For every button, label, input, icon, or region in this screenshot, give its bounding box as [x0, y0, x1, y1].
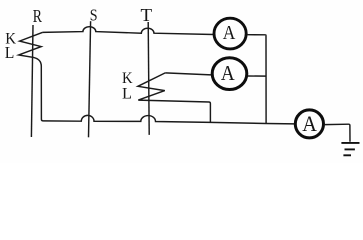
- svg-text:A: A: [223, 23, 236, 44]
- svg-text:L: L: [5, 43, 15, 62]
- svg-text:T: T: [141, 5, 153, 25]
- ammeter A2: [212, 58, 247, 90]
- ground (earth) symbol: [341, 143, 359, 155]
- current transformer CT2 winding (terminals K, L) on phase T: [138, 73, 165, 100]
- wire: right bus joining A1 and A2 outputs down to bottom return bus: [265, 35, 267, 124]
- wire: phase R vertical conductor: [31, 25, 33, 137]
- svg-text:A: A: [302, 111, 317, 136]
- wire: phase T vertical conductor: [148, 22, 149, 135]
- wire: CT2 terminal L stepping down to bottom return bus: [138, 100, 210, 123]
- svg-text:R: R: [33, 6, 42, 26]
- wire: phase S vertical conductor: [89, 21, 91, 137]
- ammeter A1: [214, 18, 246, 49]
- wire: ammeter A1 output to right bus: [247, 34, 266, 36]
- wire: top lead from CT1 terminal K to ammeter A1, hopping over S and T: [42, 27, 213, 35]
- wire: ammeter A3 output to earth connection: [325, 124, 350, 142]
- wire: bottom return bus, hopping over S and T, to ammeter A3: [43, 115, 294, 124]
- svg-text:A: A: [221, 61, 235, 85]
- svg-text:L: L: [122, 86, 132, 103]
- wire: ammeter A2 output to right bus: [248, 75, 266, 77]
- wire: CT1 terminal L down to bottom return bus: [41, 66, 43, 121]
- wire: lead from CT2 terminal K to ammeter A2: [165, 73, 211, 75]
- current transformer CT1 winding (terminals K, L) on phase R: [19, 32, 43, 66]
- ammeter A3: [295, 110, 323, 138]
- svg-text:K: K: [122, 70, 133, 87]
